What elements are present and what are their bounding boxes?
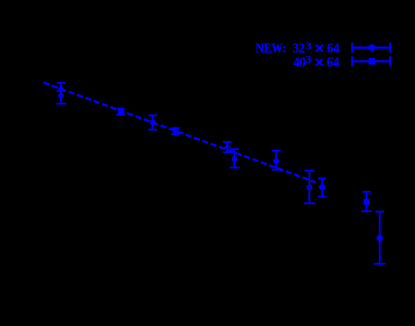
svg-text:40: 40 [293, 54, 306, 69]
data point P5 errorbar [223, 142, 232, 152]
legend row 2 text: 40^3 x 64 [293, 54, 339, 69]
data point P11 filled circle marker [377, 235, 383, 241]
svg-text:32: 32 [293, 41, 305, 56]
data point P7 filled circle marker [273, 158, 279, 164]
svg-text:3: 3 [306, 40, 312, 52]
svg-text:NEW:: NEW: [256, 41, 287, 56]
data point P8 errorbar [304, 171, 315, 204]
fit line (dashed) [44, 83, 316, 183]
data point P10 errorbar [361, 192, 372, 212]
data point P7 errorbar [272, 151, 281, 170]
data point P10 filled square marker [364, 199, 370, 205]
data point P1 errorbar [56, 83, 66, 104]
data point P2 filled square marker [118, 110, 124, 115]
data point P9 filled circle marker [319, 184, 325, 190]
data point P4 filled square marker [173, 129, 178, 133]
data point P1a triangle marker [58, 85, 65, 90]
data point P6 errorbar [230, 149, 240, 167]
data point P4 errorbar [171, 128, 179, 134]
data point P5 triangle marker [224, 143, 231, 148]
data point P1b open circle marker [59, 94, 63, 98]
legend row 1 key sample [352, 43, 390, 53]
legend row 1 text: NEW: 32^3 x 64 [256, 40, 340, 55]
legend row 2 marker [369, 58, 376, 65]
data point P6 open circle marker [232, 157, 236, 161]
svg-text:3: 3 [306, 54, 312, 66]
data point P8 open circle marker [307, 185, 311, 189]
data point P2 errorbar [116, 109, 125, 115]
data point P3 open circle marker [151, 120, 155, 124]
data point P3 errorbar [148, 115, 157, 129]
legend row 1 marker [369, 44, 376, 51]
data point P11 errorbar [374, 212, 386, 264]
svg-text:64: 64 [327, 41, 340, 56]
data point P9 errorbar [318, 179, 327, 197]
svg-text:64: 64 [327, 54, 340, 69]
legend row 2 key sample [352, 56, 390, 66]
